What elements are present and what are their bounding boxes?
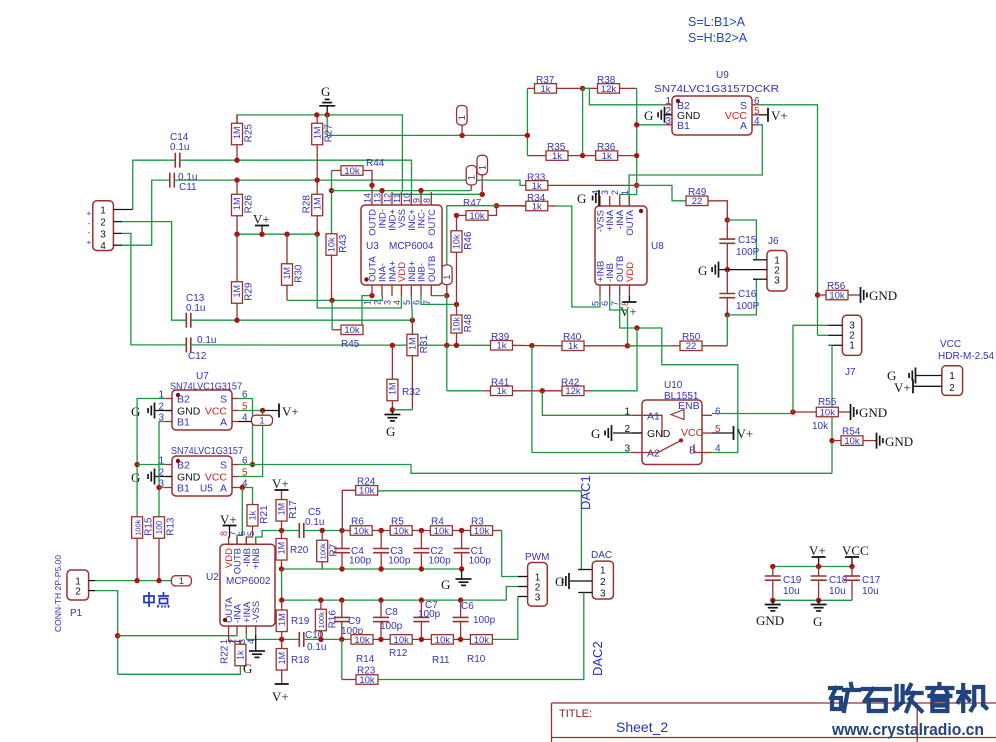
resistor R24 <box>342 477 378 531</box>
svg-text:R21: R21 <box>259 505 270 524</box>
power V+ at U9 pin5 <box>768 108 788 123</box>
connector input header <box>87 201 133 252</box>
wire pin7 down <box>446 296 448 346</box>
resistor R10 <box>470 635 492 646</box>
node R19-R18 <box>279 637 284 642</box>
svg-text:R46: R46 <box>463 231 474 250</box>
wire net C11 left <box>122 180 170 245</box>
wire net flag stub <box>461 125 463 135</box>
svg-text:R5: R5 <box>391 517 404 528</box>
svg-text:3: 3 <box>600 589 606 600</box>
mux U5 SN74LVC1G3157 <box>158 456 248 497</box>
node ENB-R55 <box>790 409 795 414</box>
svg-text:1M: 1M <box>232 127 242 140</box>
power V+ below R18 <box>272 684 289 704</box>
node filter row 2 <box>459 528 464 533</box>
node U5 A tap <box>240 485 245 490</box>
svg-text:1: 1 <box>477 165 488 170</box>
svg-text:R45: R45 <box>341 339 360 350</box>
svg-text:GND: GND <box>647 428 671 440</box>
capacitor C19 <box>765 567 802 601</box>
svg-text:100k: 100k <box>133 519 142 536</box>
svg-text:6: 6 <box>412 300 422 305</box>
svg-text:1M: 1M <box>277 542 287 555</box>
net flag 1 (a) <box>457 106 468 126</box>
power V+ at U7 pin5 <box>279 404 299 420</box>
ground G at U2 VSS <box>243 634 265 676</box>
wire C10 to R14 <box>304 638 351 640</box>
wire J6 pin1 link <box>727 220 756 260</box>
resistor R47 <box>457 198 497 222</box>
resistor R37 <box>527 75 582 95</box>
wire J6 pin3 link <box>727 279 756 315</box>
resistor R54 <box>832 427 876 448</box>
svg-text:G: G <box>591 426 600 441</box>
ground G at U8 pin4 <box>577 190 599 206</box>
svg-text:G: G <box>555 574 564 589</box>
svg-text:+: + <box>87 238 92 247</box>
resistor R32 <box>387 345 398 413</box>
svg-text:1: 1 <box>457 115 468 120</box>
wire DAC GND lead <box>570 580 578 582</box>
node cap rail b <box>816 564 821 569</box>
resistor R44 <box>332 158 385 185</box>
wire gnd to PWM2 <box>506 587 518 601</box>
node R39-R40 <box>529 343 534 348</box>
mux U9 SN74LVC1G3157DCKR <box>665 96 760 135</box>
wire R3 to PWM1 <box>502 531 518 577</box>
svg-text:100p: 100p <box>418 609 441 620</box>
ground G top <box>319 84 335 115</box>
resistor R16 <box>315 600 338 639</box>
ground G at U10 pin2 <box>591 425 612 441</box>
node R54 tap <box>829 438 834 443</box>
node R56 tap <box>815 292 820 297</box>
svg-text:R36: R36 <box>597 142 616 153</box>
wire cap bottom rail <box>773 599 852 601</box>
svg-text:1M: 1M <box>408 338 418 351</box>
svg-text:9: 9 <box>412 198 422 203</box>
resistor R48 <box>451 304 474 345</box>
node gnd rail <box>339 566 344 571</box>
node R16 bottom <box>318 637 323 642</box>
svg-text:R37: R37 <box>536 75 555 86</box>
wire DAC2 net <box>377 593 583 680</box>
capacitor C9 <box>334 600 364 639</box>
svg-text:G: G <box>698 263 707 278</box>
resistor R11 <box>431 635 471 646</box>
resistor R30 <box>282 234 305 300</box>
resistor R43 <box>326 234 349 301</box>
resistor R31 <box>407 320 430 410</box>
node R11-R10 <box>458 637 463 642</box>
svg-text:R54: R54 <box>842 427 861 438</box>
svg-text:100p: 100p <box>349 556 372 567</box>
svg-text:R47: R47 <box>463 198 482 209</box>
power V+ under U8 <box>620 296 637 319</box>
net flag 1 (e) <box>252 415 273 427</box>
svg-text:V+: V+ <box>253 212 270 227</box>
capacitor C11 <box>170 172 198 193</box>
svg-text:10k: 10k <box>829 290 845 301</box>
node U9 B1 tap <box>634 122 639 127</box>
svg-text:4: 4 <box>715 444 721 455</box>
node lower rail <box>419 597 424 602</box>
ground G cap bank <box>811 600 827 629</box>
svg-text:R32: R32 <box>402 387 421 398</box>
svg-text:TITLE:: TITLE: <box>559 708 592 720</box>
svg-text:P1: P1 <box>70 608 83 619</box>
wire R40 node to R50 <box>628 345 673 347</box>
node lower rail <box>378 597 383 602</box>
node R48 bottom <box>454 343 459 348</box>
wire DAC1 net <box>378 491 581 570</box>
wire U10 GND lead <box>613 432 642 434</box>
svg-text:G: G <box>131 404 140 419</box>
ground GND at R55 <box>851 404 888 420</box>
svg-text:C15: C15 <box>738 235 757 246</box>
title block frame <box>552 703 996 742</box>
svg-text:7: 7 <box>422 300 432 305</box>
resistor R17 <box>276 490 299 531</box>
svg-text:VCC: VCC <box>940 339 961 350</box>
svg-text:R35: R35 <box>547 142 566 153</box>
svg-text:R27: R27 <box>324 124 335 143</box>
svg-text:10k: 10k <box>469 211 485 222</box>
node U5 B2 tap <box>134 462 139 467</box>
ground G at HDR pin1 <box>887 368 916 384</box>
resistor R18 <box>276 639 287 684</box>
resistor R49 <box>686 187 727 220</box>
node U5 S tap <box>250 462 255 467</box>
capacitor C7 <box>413 600 440 639</box>
op-amp U2 MCP6002 <box>206 531 275 644</box>
svg-text:G: G <box>441 577 450 592</box>
node pin5-R31 <box>410 318 415 323</box>
wire R38 right vertical <box>636 88 638 185</box>
svg-text:0.1u: 0.1u <box>170 142 189 153</box>
svg-text:R24: R24 <box>357 477 376 488</box>
resistor R5 <box>390 517 430 537</box>
svg-text:10k: 10k <box>474 526 490 537</box>
wire U9 B2 input <box>583 88 665 104</box>
wire A2 wire <box>532 346 632 453</box>
wire net C11 right <box>175 180 526 185</box>
wire P1 pin1 midpoint <box>95 580 171 582</box>
svg-text:C12: C12 <box>188 351 207 362</box>
wire U7 B2 down <box>137 399 166 518</box>
wire V+ bar lead <box>263 410 279 412</box>
svg-text:1: 1 <box>259 416 264 427</box>
svg-text:10k: 10k <box>812 421 829 432</box>
svg-text:8: 8 <box>422 198 432 203</box>
resistor R13 <box>154 517 177 581</box>
svg-text:A2: A2 <box>647 448 660 460</box>
wire R45 left vert <box>331 300 333 329</box>
svg-text:R12: R12 <box>389 648 408 659</box>
svg-text:10k: 10k <box>820 407 836 418</box>
svg-text:V+: V+ <box>737 426 754 441</box>
svg-text:1: 1 <box>179 576 184 587</box>
node gnd rail <box>379 566 384 571</box>
resistor R15 <box>132 517 155 581</box>
svg-text:R55: R55 <box>818 397 837 408</box>
svg-text:R16: R16 <box>327 610 338 629</box>
svg-text:100p: 100p <box>380 621 403 632</box>
svg-text:HDR-M-2.54: HDR-M-2.54 <box>938 351 995 362</box>
svg-text:SN74LVC1G3157DCKR: SN74LVC1G3157DCKR <box>654 83 779 95</box>
node cap brail b <box>816 598 821 603</box>
svg-text:U9: U9 <box>716 70 729 81</box>
connector P1 <box>67 570 95 619</box>
svg-text:U2: U2 <box>206 572 219 583</box>
node C15-C16 mid <box>725 267 730 272</box>
svg-text:3: 3 <box>665 116 671 127</box>
svg-text:3: 3 <box>624 444 630 455</box>
wire R45 right vert <box>362 296 372 330</box>
svg-text:R10: R10 <box>467 654 486 665</box>
wire P1 pin2 down <box>95 591 118 675</box>
capacitor C3 <box>373 531 411 570</box>
svg-text:S: S <box>220 460 227 472</box>
capacitor C6 <box>453 600 496 639</box>
wire U7 GND lead <box>155 410 173 412</box>
wire R33 net to U8 INA- <box>620 185 637 196</box>
svg-text:PWM: PWM <box>525 552 549 563</box>
svg-text:2: 2 <box>100 218 106 229</box>
svg-text:6: 6 <box>600 301 610 306</box>
node C9 bottom <box>339 637 344 642</box>
resistor R26 <box>232 180 255 234</box>
svg-text:G: G <box>644 108 653 123</box>
svg-text:VCC: VCC <box>681 427 704 439</box>
svg-text:B1: B1 <box>677 120 690 132</box>
svg-text:3: 3 <box>600 190 610 195</box>
resistor R3 <box>471 517 502 537</box>
svg-text:VDD: VDD <box>625 262 636 282</box>
node V+ rail a <box>234 232 239 237</box>
svg-text:V+: V+ <box>620 304 637 319</box>
node junction at 527 <box>525 133 530 138</box>
svg-text:C19: C19 <box>783 575 802 586</box>
svg-text:B: B <box>689 445 696 457</box>
power V+ at U10 pin5 <box>734 426 754 441</box>
svg-text:1M: 1M <box>277 613 287 626</box>
svg-text:100k: 100k <box>317 612 326 629</box>
svg-text:10k: 10k <box>327 237 337 252</box>
svg-text:R34: R34 <box>527 193 546 204</box>
node gnd rail <box>459 566 464 571</box>
node pin9 tap <box>418 188 423 193</box>
node filter row 1 <box>419 528 424 533</box>
node cap brail a <box>770 598 775 603</box>
node lower rail <box>458 597 463 602</box>
svg-text:2: 2 <box>373 300 383 305</box>
svg-text:G: G <box>321 84 330 99</box>
svg-text:10k: 10k <box>474 635 490 646</box>
wire R33 net to R49 <box>637 185 687 200</box>
svg-text:C17: C17 <box>862 575 881 586</box>
svg-text:-: - <box>88 219 91 228</box>
wire U9 S output <box>759 105 818 335</box>
node U3 pin1 <box>369 293 374 298</box>
wire cap top rail <box>773 566 852 568</box>
wire net C13 right <box>192 319 413 321</box>
svg-text:1M: 1M <box>282 267 292 280</box>
wire pin5 stub ext <box>411 296 412 320</box>
svg-text:1k: 1k <box>236 650 246 660</box>
svg-text:3: 3 <box>535 593 541 604</box>
svg-text:100P: 100P <box>736 247 760 258</box>
svg-text:10k: 10k <box>344 325 360 336</box>
svg-text:14: 14 <box>363 193 373 203</box>
node U5 B1 tap <box>156 485 161 490</box>
resistor R40 <box>532 332 628 352</box>
wire U9 A to U8 OUTA <box>629 125 762 206</box>
capacitor C2 <box>413 531 451 570</box>
ground GND cap bank <box>756 600 784 628</box>
resistor R41 <box>483 378 542 398</box>
node lower rail <box>339 597 344 602</box>
node R12-R11 <box>419 637 424 642</box>
svg-text:GND: GND <box>885 434 913 449</box>
wire R23 feed <box>341 639 343 679</box>
wire R41 feed row <box>447 390 483 392</box>
capacitor C1 <box>454 531 492 570</box>
power V+ above R17 <box>272 476 289 491</box>
net flag 1 (b) <box>466 166 477 186</box>
svg-text:R48: R48 <box>463 314 474 333</box>
svg-text:5: 5 <box>402 300 412 305</box>
ground G below R32 <box>384 410 400 439</box>
resistor R25 <box>232 115 255 160</box>
svg-text:10k: 10k <box>354 526 370 537</box>
svg-text:www.crystalradio.cn: www.crystalradio.cn <box>831 720 984 739</box>
svg-text:B1: B1 <box>177 417 190 429</box>
svg-text:R29: R29 <box>244 282 255 301</box>
connector PWM <box>518 552 550 606</box>
svg-text:100: 100 <box>155 520 164 534</box>
svg-text:SN74LVC1G3157: SN74LVC1G3157 <box>171 445 243 457</box>
node midpoint a <box>134 578 139 583</box>
svg-text:A: A <box>740 120 747 132</box>
svg-text:1: 1 <box>620 190 630 195</box>
capacitor C12 <box>186 335 216 362</box>
svg-text:GND: GND <box>869 288 897 303</box>
wire net C13 left <box>122 222 186 321</box>
resistor R38 <box>583 75 637 95</box>
svg-text:C6: C6 <box>461 601 474 612</box>
capacitor C5 <box>299 507 324 538</box>
node R36 right <box>634 153 639 158</box>
svg-text:100p: 100p <box>473 615 496 626</box>
connector VCC HDR-M-2.54 <box>913 339 995 395</box>
node R14-R12 <box>378 637 383 642</box>
wire ENB wire <box>712 413 793 415</box>
wire U8 OUTB down <box>620 296 738 453</box>
node R47 corner <box>494 203 499 208</box>
wire U2 +INA stub <box>245 634 247 639</box>
wire R47 left branch <box>447 206 497 265</box>
svg-text:V+: V+ <box>771 108 788 123</box>
svg-text:1: 1 <box>467 175 478 180</box>
svg-text:R42: R42 <box>561 378 580 389</box>
wire pin12/pin8 bus <box>392 193 482 195</box>
svg-text:1M: 1M <box>388 383 398 396</box>
svg-text:-VSS: -VSS <box>251 601 262 623</box>
wire R37R38 to R35R36 <box>582 88 584 155</box>
svg-text:1: 1 <box>442 275 453 280</box>
svg-text:5: 5 <box>591 301 601 306</box>
resistor R34 <box>497 193 557 212</box>
wire to R22 bottom <box>118 664 241 674</box>
wire R37-R35 left vertical <box>526 88 528 155</box>
resistor R21 <box>246 505 270 545</box>
svg-text:DAC1: DAC1 <box>578 475 593 510</box>
svg-text:V+: V+ <box>894 380 911 395</box>
wire U10 VCC lead <box>712 432 734 434</box>
svg-text:+: + <box>87 209 92 218</box>
wire net flag c stub <box>481 175 483 195</box>
svg-text:-: - <box>88 228 91 237</box>
wire U7 VCC link <box>238 410 263 412</box>
resistor R35 <box>527 142 582 162</box>
svg-text:10k: 10k <box>844 436 860 447</box>
wire U7-U5 VCC vert <box>238 411 263 477</box>
node junction net flag 1 <box>459 133 464 138</box>
capacitor C4 <box>334 531 372 570</box>
ground GND at R56 <box>861 287 898 303</box>
svg-text:MCP6002: MCP6002 <box>226 576 271 587</box>
wire U5 A to U2 OUTB <box>237 488 242 545</box>
power V+ above U2 <box>220 512 237 537</box>
op-amp U3 MCP6004 <box>361 185 442 305</box>
node C14-R25 <box>234 158 239 163</box>
node pin7 junction <box>444 293 449 298</box>
ground GND at R54 <box>877 433 914 449</box>
resistor R45 <box>332 325 363 350</box>
svg-text:G: G <box>386 424 395 439</box>
svg-text:1k: 1k <box>248 510 258 520</box>
svg-text:4: 4 <box>392 300 402 305</box>
node R42 top <box>634 325 639 330</box>
wire U7 B1 down <box>159 422 166 518</box>
node R33 net <box>634 183 639 188</box>
svg-text:R6: R6 <box>351 517 364 528</box>
capacitor C8 <box>373 600 403 639</box>
svg-text:OUTB: OUTB <box>427 256 438 282</box>
node V+ rail d <box>315 232 320 237</box>
wire A1 wire <box>542 391 632 416</box>
node R32 top <box>390 343 395 348</box>
svg-text:R43: R43 <box>338 234 349 253</box>
svg-text:G: G <box>243 661 252 676</box>
wire ground top rail <box>237 115 402 192</box>
svg-text:GND: GND <box>756 613 784 628</box>
wire pin13/pin9 bus <box>332 190 472 192</box>
resistor R27 <box>312 115 335 180</box>
node C13-R29 <box>234 318 239 323</box>
svg-text:G: G <box>131 470 140 485</box>
svg-text:100p: 100p <box>428 556 451 567</box>
svg-text:SN74LVC1G3157: SN74LVC1G3157 <box>170 381 242 393</box>
node R46 bottom <box>454 302 459 307</box>
svg-text:R50: R50 <box>682 332 701 343</box>
node R46-R47 <box>454 213 459 218</box>
ground G upper rail <box>441 569 472 592</box>
node gnd rail <box>419 566 424 571</box>
node C16 bottom <box>725 312 730 317</box>
